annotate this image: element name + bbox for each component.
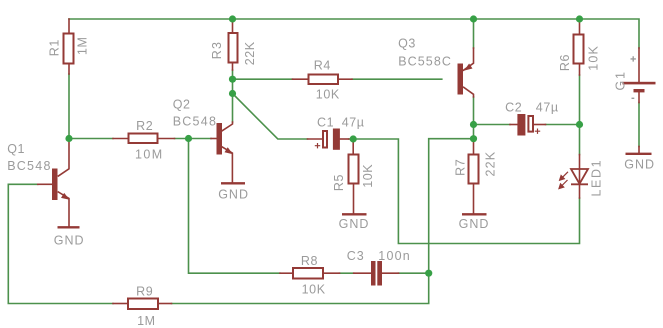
svg-text:10K: 10K [316, 88, 340, 102]
svg-text:R1: R1 [48, 39, 62, 56]
svg-text:LED1: LED1 [589, 159, 603, 197]
svg-text:C2: C2 [505, 101, 522, 115]
svg-text:R8: R8 [301, 254, 318, 268]
svg-text:GND: GND [624, 157, 655, 171]
svg-text:BC548: BC548 [173, 115, 217, 129]
svg-text:Q2: Q2 [173, 98, 191, 112]
svg-text:R9: R9 [136, 284, 153, 298]
svg-text:R5: R5 [332, 174, 346, 191]
svg-text:10K: 10K [586, 45, 600, 71]
svg-text:GND: GND [218, 188, 249, 202]
svg-text:10K: 10K [361, 164, 375, 188]
svg-text:Q1: Q1 [7, 142, 25, 156]
svg-text:G1: G1 [614, 70, 628, 90]
svg-text:22K: 22K [243, 41, 257, 65]
svg-text:R6: R6 [558, 54, 572, 71]
svg-text:R3: R3 [210, 41, 224, 60]
svg-text:1M: 1M [137, 314, 156, 328]
svg-text:R4: R4 [314, 59, 331, 73]
svg-text:10M: 10M [135, 148, 164, 162]
svg-text:22K: 22K [483, 151, 497, 177]
svg-text:BC548: BC548 [7, 159, 51, 173]
svg-text:C3: C3 [347, 249, 365, 263]
svg-text:C1: C1 [317, 116, 334, 130]
svg-text:GND: GND [54, 233, 85, 247]
svg-text:10K: 10K [302, 282, 326, 296]
svg-text:47µ: 47µ [536, 101, 559, 115]
svg-text:BC558C: BC558C [398, 54, 452, 68]
svg-text:GND: GND [339, 217, 370, 231]
svg-text:100n: 100n [378, 249, 411, 263]
svg-text:GND: GND [459, 217, 490, 231]
svg-text:R7: R7 [454, 159, 468, 176]
svg-text:R2: R2 [136, 119, 153, 133]
svg-text:47µ: 47µ [342, 116, 365, 130]
svg-text:Q3: Q3 [398, 37, 416, 51]
svg-text:1M: 1M [76, 37, 90, 56]
